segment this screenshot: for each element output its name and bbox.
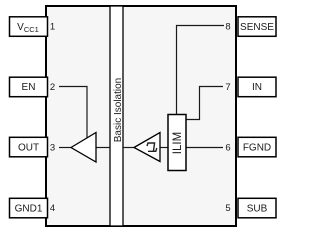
svg-text:5: 5 (225, 203, 230, 214)
svg-text:IN: IN (252, 82, 262, 93)
svg-text:Basic Isolation: Basic Isolation (113, 78, 124, 142)
svg-text:EN: EN (22, 82, 36, 93)
svg-text:4: 4 (50, 203, 55, 214)
svg-text:8: 8 (225, 22, 230, 33)
svg-text:ILIM: ILIM (172, 132, 184, 154)
svg-text:SENSE: SENSE (240, 22, 274, 33)
svg-text:GND1: GND1 (15, 203, 43, 214)
svg-text:2: 2 (50, 82, 55, 93)
svg-text:FGND: FGND (243, 142, 271, 153)
svg-text:6: 6 (225, 143, 230, 154)
svg-text:SUB: SUB (247, 203, 268, 214)
svg-text:7: 7 (225, 82, 230, 93)
svg-text:3: 3 (50, 143, 55, 154)
svg-text:1: 1 (50, 22, 55, 33)
svg-text:OUT: OUT (18, 142, 39, 153)
